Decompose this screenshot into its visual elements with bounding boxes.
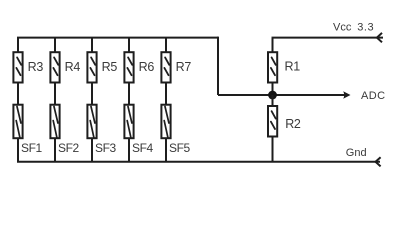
resistor R6 bbox=[124, 52, 133, 82]
sensor SF3 bbox=[87, 105, 96, 139]
wire SF3 bottom bbox=[91, 138, 93, 162]
wire R7-SF5 bbox=[165, 83, 167, 106]
Gnd rail arrowhead bbox=[376, 157, 381, 166]
wire stub R7 top bbox=[165, 38, 167, 52]
sensor SF1 bbox=[13, 105, 22, 139]
wire R4-SF2 bbox=[54, 83, 56, 106]
wire stub R3 top bbox=[17, 38, 19, 52]
resistor R4 bbox=[50, 52, 59, 82]
svg-text:R5: R5 bbox=[102, 60, 118, 74]
ADC arrowhead bbox=[343, 91, 350, 99]
sensor SF5 bbox=[161, 105, 170, 139]
svg-text:R2: R2 bbox=[285, 117, 301, 131]
svg-text:SF3: SF3 bbox=[95, 141, 117, 155]
svg-text:Vcc: Vcc bbox=[333, 22, 352, 34]
wire stub R5 top bbox=[91, 38, 93, 52]
svg-text:SF5: SF5 bbox=[169, 141, 191, 155]
wire Vcc rail bbox=[273, 37, 384, 38]
resistor R1 bbox=[268, 52, 277, 82]
sensor SF2 bbox=[50, 105, 59, 139]
wire SF5 bottom bbox=[165, 138, 167, 162]
svg-text:SF1: SF1 bbox=[21, 141, 43, 155]
wire top rail descent to ADC node bbox=[217, 37, 219, 95]
Vcc rail arrowhead bbox=[377, 33, 382, 42]
svg-text:R4: R4 bbox=[65, 60, 81, 74]
wire Gnd rail bbox=[17, 161, 380, 163]
wire R2 to Gnd rail bbox=[272, 136, 274, 162]
svg-text:Gnd: Gnd bbox=[346, 147, 367, 159]
svg-text:R7: R7 bbox=[176, 60, 192, 74]
resistor R2 bbox=[268, 106, 277, 137]
resistor R5 bbox=[87, 52, 96, 82]
wire R5-SF3 bbox=[91, 83, 93, 106]
wire stub R6 top bbox=[128, 38, 130, 52]
resistor R3 bbox=[13, 52, 22, 82]
wire node to R2 bbox=[272, 95, 274, 106]
svg-text:R1: R1 bbox=[285, 60, 301, 74]
wire R1 to node bbox=[272, 83, 274, 96]
wire Vcc to R1 bbox=[272, 38, 274, 52]
wire stub R4 top bbox=[54, 38, 56, 52]
svg-text:ADC: ADC bbox=[361, 90, 385, 102]
wire ADC line bbox=[218, 94, 345, 96]
svg-text:3.3: 3.3 bbox=[357, 22, 374, 34]
node ADC junction dot bbox=[268, 91, 277, 100]
wire R6-SF4 bbox=[128, 83, 130, 106]
wire R3-SF1 bbox=[17, 83, 19, 106]
svg-text:R3: R3 bbox=[28, 60, 44, 74]
wire SF4 bottom bbox=[128, 138, 130, 162]
svg-text:SF2: SF2 bbox=[58, 141, 80, 155]
wire SF2 bottom bbox=[54, 138, 56, 162]
wire top rail net bbox=[17, 37, 218, 39]
sensor SF4 bbox=[124, 105, 133, 139]
resistor R7 bbox=[161, 52, 170, 82]
wire SF1 bottom bbox=[17, 138, 19, 162]
svg-text:SF4: SF4 bbox=[132, 141, 154, 155]
svg-text:R6: R6 bbox=[139, 60, 155, 74]
